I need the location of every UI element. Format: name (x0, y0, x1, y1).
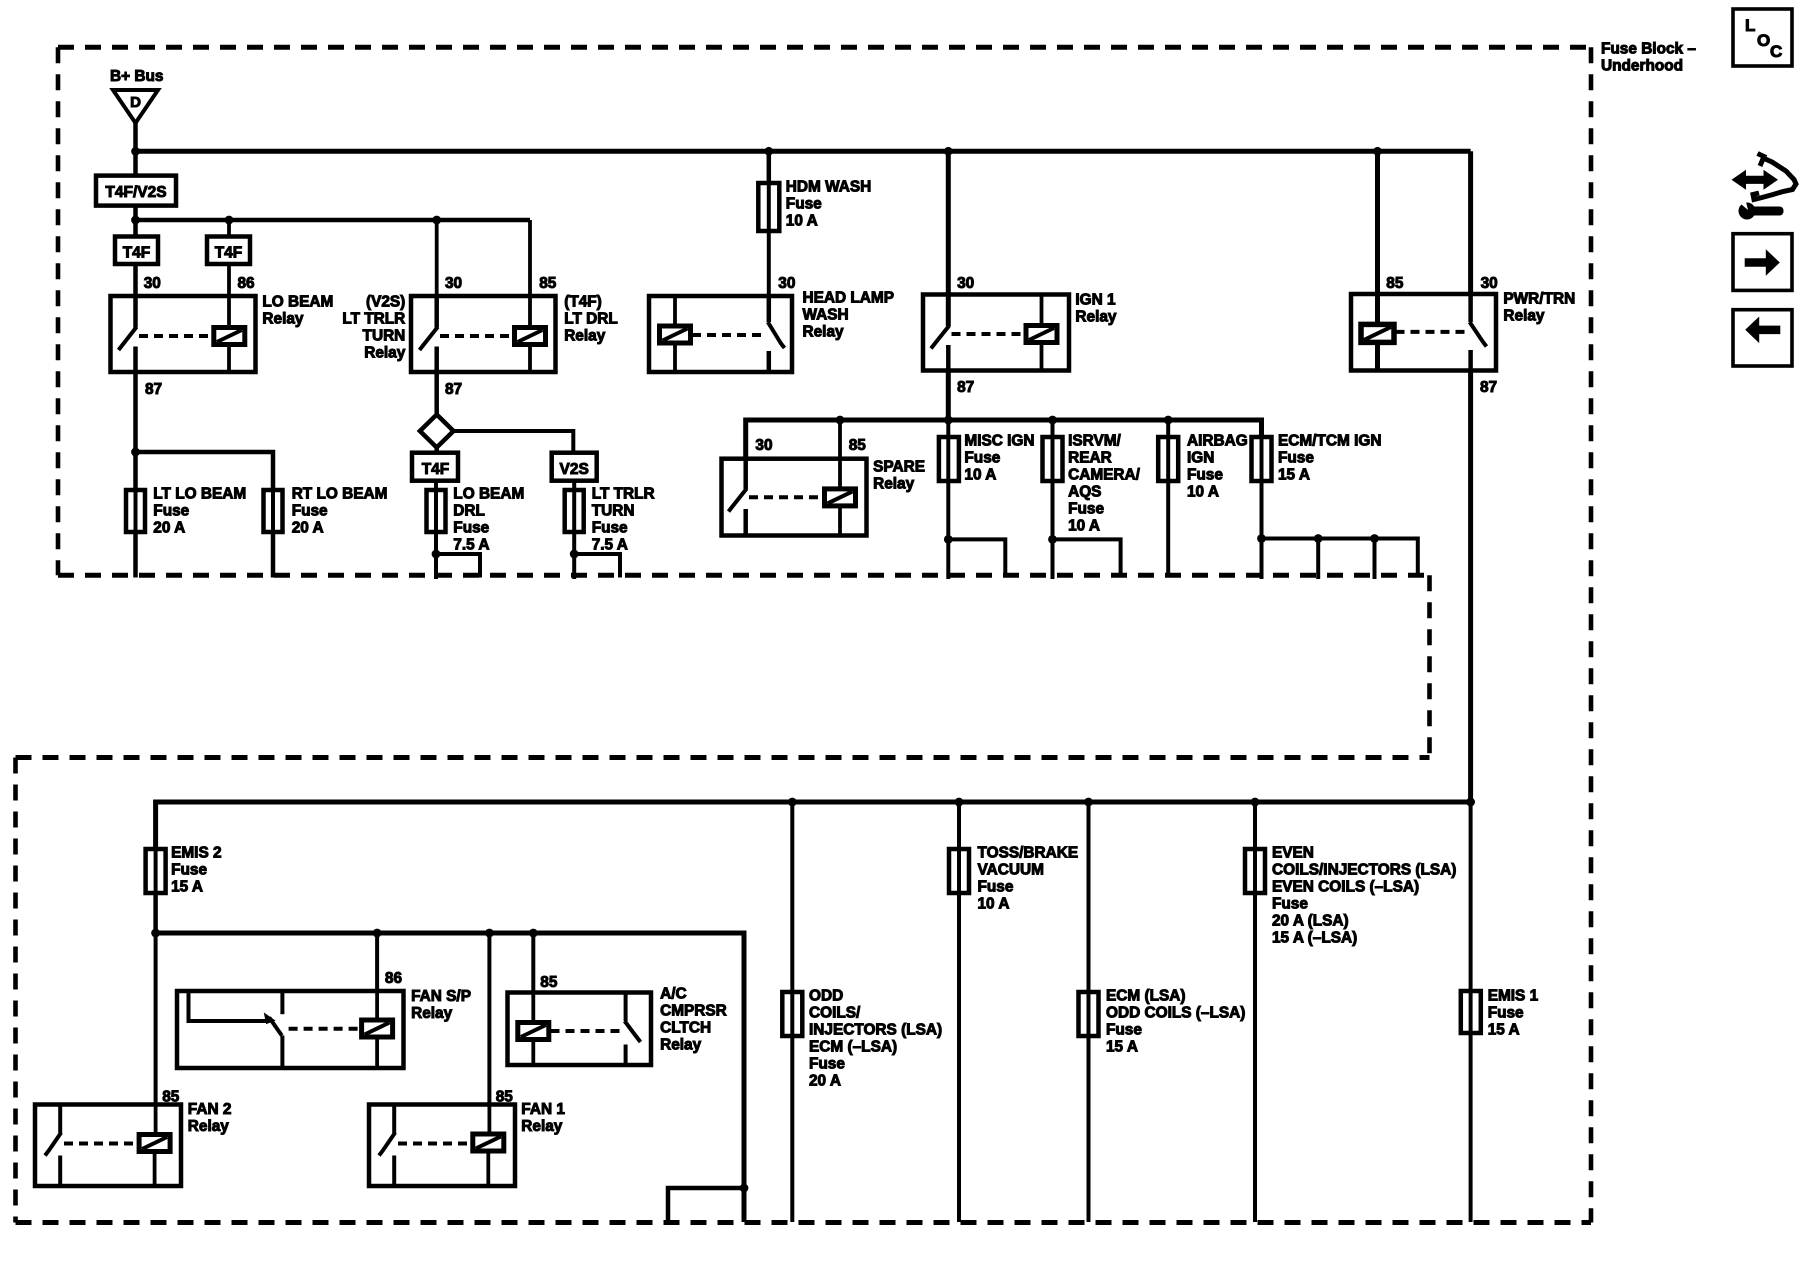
relay FAN S/P - switch upper stub (280, 991, 284, 1014)
wire - bus to TOSS/BRAKE VACUUM fuse (957, 802, 961, 849)
svg-text:Fuse: Fuse (809, 1056, 845, 1073)
svg-text:CLTCH: CLTCH (660, 1020, 711, 1037)
fuse RT LO BEAM 20A - symbol (271, 490, 275, 532)
wire - 87 bus to SPARE relay pin 85 coil (838, 420, 842, 459)
svg-text:10 A: 10 A (1187, 484, 1219, 501)
svg-text:30: 30 (957, 275, 974, 292)
svg-text:20 A: 20 A (153, 520, 185, 537)
relay sub-bus wire (fan/AC relays) (156, 933, 744, 1222)
relay LO BEAM - coil (214, 328, 245, 345)
svg-text:CAMERA/: CAMERA/ (1068, 467, 1141, 484)
relay LO BEAM - coil upper stub (227, 296, 231, 328)
relay FAN 2 - switch arm (45, 1133, 61, 1156)
node - sub-bus at EMIS 2 / FAN 2 feed (151, 929, 160, 938)
relay (V2S) LT TRLR TURN - coil lower stub (528, 345, 532, 373)
wire - ISRVM fuse to exit splice (1051, 481, 1055, 539)
svg-text:30: 30 (445, 275, 462, 292)
relay IGN 1 - coil upper stub (1040, 295, 1044, 326)
svg-text:85: 85 (1386, 275, 1404, 292)
node - bus tap at HDM WASH fuse (764, 147, 773, 156)
node - sub-bus at FAN S/P relay pin 86 (373, 929, 382, 938)
svg-text:ISRVM/: ISRVM/ (1068, 433, 1121, 450)
relay FAN 2 - coil lower stub (153, 1152, 157, 1187)
svg-text:Fuse: Fuse (1278, 450, 1314, 467)
svg-text:85: 85 (849, 437, 867, 454)
svg-text:ODD COILS (–LSA): ODD COILS (–LSA) (1106, 1005, 1245, 1022)
svg-text:30: 30 (778, 275, 795, 292)
svg-text:(V2S): (V2S) (366, 294, 405, 311)
sub-bus wire below T4F/V2S (136, 218, 531, 223)
relay HEAD LAMP WASH - coil (660, 326, 691, 343)
wire - AIRBAG IGN fuse exit to border (1166, 481, 1170, 578)
node - ECM/TCM exit splice 1 (1257, 534, 1266, 543)
svg-text:87: 87 (1480, 379, 1497, 396)
svg-text:Relay: Relay (873, 476, 915, 493)
relay IGN 1 - switch lower stub (pin 87) (946, 345, 951, 371)
svg-text:INJECTORS (LSA): INJECTORS (LSA) (809, 1022, 942, 1039)
fuse LO BEAM DRL 7.5A - symbol (434, 490, 438, 532)
node - junction to RT LO BEAM fuse branch (131, 448, 140, 457)
wire - diamond to T4F box (LO BEAM DRL branch) (434, 448, 439, 453)
relay LO BEAM - coil lower stub (227, 345, 231, 373)
svg-text:Fuse: Fuse (1272, 896, 1308, 913)
node - sub-bus at A/C relay pin 85 (529, 929, 538, 938)
wire - bus to HDM WASH fuse (767, 151, 772, 183)
main B+ bus wire across top (136, 149, 1471, 154)
relay SPARE - box (722, 459, 867, 536)
relay HEAD LAMP WASH - switch pin 30 stub (767, 296, 772, 322)
node - 87 bus at AIRBAG IGN fuse column (1164, 416, 1173, 425)
icon LOC reference box (1733, 9, 1792, 66)
svg-text:30: 30 (755, 437, 772, 454)
fuse ISRVM/REAR CAMERA/AQS 10A - symbol (1051, 437, 1055, 481)
relay FAN 1 - coil lower stub (486, 1151, 490, 1186)
svg-text:Fuse: Fuse (964, 450, 1000, 467)
wire - ECM/TCM exit stub 3 to border (1373, 539, 1377, 580)
svg-text:ECM/TCM IGN: ECM/TCM IGN (1278, 433, 1381, 450)
relay (V2S) LT TRLR TURN - coil upper stub (528, 296, 532, 328)
relay FAN 2 - box (35, 1105, 181, 1187)
relay FAN S/P - internal L conductor (189, 991, 268, 1021)
relay FAN S/P - coil (362, 1020, 393, 1037)
svg-text:Relay: Relay (411, 1005, 453, 1022)
svg-text:MISC IGN: MISC IGN (964, 433, 1034, 450)
connector label box T4F (pin 30 LO BEAM relay) (115, 237, 158, 265)
relay FAN S/P - coil upper stub (375, 991, 379, 1020)
svg-text:T4F: T4F (215, 245, 243, 262)
wire - MISC IGN fuse to exit splice (946, 481, 950, 539)
svg-text:10 A: 10 A (786, 213, 818, 230)
svg-text:15 A: 15 A (171, 879, 203, 896)
relay LO BEAM - box (111, 296, 256, 372)
svg-text:FAN S/P: FAN S/P (411, 988, 471, 1005)
relay (V2S) LT TRLR TURN - switch arm (420, 327, 438, 350)
relay HEAD LAMP WASH - coil upper stub (673, 296, 677, 326)
svg-text:COILS/INJECTORS (LSA): COILS/INJECTORS (LSA) (1272, 862, 1456, 879)
svg-text:EMIS 2: EMIS 2 (171, 845, 221, 862)
wire - LO BEAM relay pin 87 down (133, 372, 138, 490)
connector label box T4F (LO BEAM DRL fuse) (412, 453, 458, 481)
wire - LO BEAM DRL exit stub right to border (436, 554, 480, 578)
ignition 87 bus wire (746, 420, 1262, 459)
svg-text:Relay: Relay (364, 345, 406, 362)
svg-text:V2S: V2S (560, 461, 589, 478)
svg-text:Relay: Relay (803, 324, 845, 341)
relay A/C CMPRSR CLTCH - switch upper stub (624, 993, 628, 1022)
power triangle D (B+ Bus) (113, 90, 158, 123)
wire - ISRVM exit stub right to border (1053, 539, 1121, 577)
relay A/C CMPRSR CLTCH - switch arm (625, 1021, 641, 1042)
svg-text:15 A: 15 A (1278, 467, 1310, 484)
relay PWR/TRN - dashed actuator link (1396, 330, 1467, 334)
wire - bus to EVEN COILS fuse (1253, 802, 1257, 849)
relay HEAD LAMP WASH - switch arm (768, 322, 785, 348)
svg-text:O: O (1757, 31, 1770, 50)
svg-text:HDM WASH: HDM WASH (786, 179, 872, 196)
node - ISRVM exit splice (1048, 535, 1057, 544)
relay FAN 1 - switch upper stub (392, 1105, 396, 1134)
relay (V2S) LT TRLR TURN - dashed actuator link (440, 334, 515, 338)
svg-text:85: 85 (539, 275, 557, 292)
relay SPARE - switch arm (729, 489, 747, 512)
svg-text:EVEN COILS (–LSA): EVEN COILS (–LSA) (1272, 879, 1419, 896)
icon forward arrow box (1733, 234, 1792, 291)
wire - sub-bus to V2S relay pin 30 (435, 220, 439, 296)
relay IGN 1 - switch pin 30 stub (946, 295, 951, 327)
node - LT TRLR TURN exit splice (570, 550, 579, 559)
relay FAN S/P - dashed actuator link (289, 1027, 362, 1031)
svg-text:10 A: 10 A (1068, 518, 1100, 535)
svg-text:Fuse: Fuse (1187, 467, 1223, 484)
relay PWR/TRN - switch arm (1470, 322, 1487, 347)
wire - sub-bus down to FAN 2 relay coil (pin 85) (154, 933, 158, 1105)
relay FAN 1 - box (369, 1105, 515, 1187)
svg-text:EMIS 1: EMIS 1 (1488, 988, 1539, 1005)
node - bus tap at PWR/TRN relay pin 85 (1373, 147, 1382, 156)
node - ECM/TCM exit splice 3 (1370, 534, 1379, 543)
node - sub-bus at FAN 1 relay pin 85 (485, 929, 494, 938)
fuse TOSS/BRAKE VACUUM 10A - symbol (957, 849, 961, 893)
svg-text:Fuse: Fuse (1488, 1005, 1524, 1022)
relay FAN 2 - coil (139, 1135, 170, 1152)
svg-text:T4F: T4F (123, 245, 151, 262)
svg-text:VACUUM: VACUUM (978, 862, 1044, 879)
wire - V2S box to LT TRLR TURN fuse (572, 481, 576, 490)
svg-text:COILS/: COILS/ (809, 1005, 861, 1022)
relay FAN S/P - switch lower stub (280, 1036, 284, 1069)
relay HEAD LAMP WASH - dashed actuator link (692, 333, 765, 337)
wire - ECM/TCM exit stub 1 to border (1260, 539, 1264, 580)
wire - sub-bus into right T4F box (227, 220, 231, 237)
wire - bus to PWR/TRN relay pin 85 (coil) (1375, 151, 1380, 294)
svg-text:Fuse Block –: Fuse Block – (1601, 41, 1696, 58)
svg-text:ECM (LSA): ECM (LSA) (1106, 988, 1186, 1005)
relay PWR/TRN - coil (1361, 324, 1394, 342)
svg-text:CMPRSR: CMPRSR (660, 1003, 727, 1020)
relay PWR/TRN - coil lower stub (1375, 342, 1380, 370)
fuse block border - bottom box, dashed outline (16, 755, 1430, 760)
relay LO BEAM - switch lower stub (pin 87) (133, 347, 138, 373)
svg-text:10 A: 10 A (964, 467, 996, 484)
svg-text:15 A (–LSA): 15 A (–LSA) (1272, 930, 1357, 947)
fuse AIRBAG IGN 10A - symbol (1166, 437, 1170, 481)
svg-text:30: 30 (1481, 275, 1498, 292)
fuse EVEN COILS/INJECTORS - symbol (1253, 849, 1257, 893)
node - MISC IGN exit splice (944, 535, 953, 544)
relay FAN S/P - coil lower stub (375, 1037, 379, 1068)
svg-text:T4F/V2S: T4F/V2S (105, 184, 166, 201)
wire - PWR/TRN pin 87 long feed down to bottom bus (1468, 371, 1473, 803)
svg-text:Relay: Relay (188, 1118, 230, 1135)
relay (V2S) LT TRLR TURN - coil (515, 328, 546, 345)
svg-text:Relay: Relay (660, 1037, 702, 1054)
relay SPARE - switch lower stub (743, 509, 748, 536)
fuse block border - top box (Fuse Block - Underhood), dashed outline (58, 45, 1591, 50)
svg-text:AIRBAG: AIRBAG (1187, 433, 1248, 450)
relay FAN 1 - switch arm (379, 1133, 395, 1156)
relay SPARE - coil upper stub (838, 459, 842, 489)
node - 87 bus at MISC IGN column (944, 416, 953, 425)
svg-text:LO BEAM: LO BEAM (453, 486, 524, 503)
wire - sub-bus down to FAN 1 relay coil (pin 85) (487, 933, 491, 1105)
wire - diamond right branch to V2S box (454, 431, 574, 453)
fuse LT LO BEAM 20A - symbol (134, 490, 138, 532)
svg-text:DRL: DRL (453, 503, 485, 520)
svg-text:TURN: TURN (592, 503, 635, 520)
node - bottom bus at ECM (LSA) fuse (1084, 798, 1093, 807)
svg-text:L: L (1745, 16, 1755, 35)
relay PWR/TRN - coil upper stub (1375, 294, 1380, 324)
svg-text:ECM (–LSA): ECM (–LSA) (809, 1039, 897, 1056)
svg-text:Fuse: Fuse (978, 879, 1014, 896)
wire - ECM/TCM exit manifold (1262, 539, 1418, 578)
node - bottom bus at EVEN COILS fuse (1251, 798, 1260, 807)
wire - LO BEAM DRL exit stub left to border (434, 554, 438, 579)
relay IGN 1 - box (923, 295, 1069, 371)
fuse MISC IGN 10A - symbol (946, 437, 950, 481)
fuse block border - right edge (1589, 47, 1594, 1222)
wire - sub-bus into left T4F box (133, 220, 138, 237)
svg-text:7.5 A: 7.5 A (453, 537, 489, 554)
connector label box T4F/V2S (96, 176, 176, 206)
wire - EMIS 2 fuse to relay sub-bus (153, 893, 158, 933)
bottom box main bus wire (156, 802, 1471, 849)
wire - MISC IGN exit stub down to border (946, 539, 950, 579)
svg-text:Fuse: Fuse (171, 862, 207, 879)
relay FAN 2 - switch lower stub (58, 1156, 62, 1187)
wire - bus to ECM (LSA) fuse (1087, 802, 1091, 992)
node - 87 bus at ISRVM fuse column (1048, 416, 1057, 425)
svg-text:B+ Bus: B+ Bus (110, 68, 163, 85)
wire - ODD COILS fuse exit to border (790, 1036, 794, 1222)
node - bus tap at T4F/V2S feed (131, 147, 140, 156)
fuse EMIS 1 15A - symbol (1469, 991, 1473, 1033)
svg-text:20 A: 20 A (292, 520, 324, 537)
wire - LO BEAM DRL fuse to exit splice (434, 532, 438, 554)
svg-text:LT DRL: LT DRL (564, 311, 618, 328)
svg-text:Relay: Relay (1503, 308, 1545, 325)
svg-text:Relay: Relay (521, 1118, 563, 1135)
svg-text:10 A: 10 A (978, 896, 1010, 913)
relay FAN S/P - box (177, 991, 404, 1068)
svg-text:A/C: A/C (660, 986, 687, 1003)
relay FAN 1 - coil (473, 1134, 504, 1151)
svg-text:86: 86 (238, 275, 255, 292)
svg-text:30: 30 (144, 275, 161, 292)
fuse block border - notch between boxes (1427, 575, 1432, 757)
relay SPARE - coil (825, 489, 856, 506)
wire - exit stub left of sub-bus drop (668, 1188, 744, 1222)
svg-text:Fuse: Fuse (592, 520, 628, 537)
svg-text:20 A: 20 A (809, 1073, 841, 1090)
wire - bus down to T4F/V2S box (133, 151, 138, 175)
wire - RT LO BEAM fuse exit to border (271, 532, 276, 578)
svg-text:PWR/TRN: PWR/TRN (1503, 291, 1575, 308)
node - bottom bus at ODD COILS fuse (788, 798, 797, 807)
junction diamond splice (420, 415, 454, 448)
wire - IGN 1 pin 87 down to ignition bus (946, 371, 951, 421)
svg-text:TOSS/BRAKE: TOSS/BRAKE (978, 845, 1079, 862)
node - bottom bus at TOSS/BRAKE VACUUM fuse (955, 798, 964, 807)
svg-text:SPARE: SPARE (873, 459, 925, 476)
relay PWR/TRN - switch lower stub (pin 87) (1468, 350, 1473, 371)
relay PWR/TRN - switch pin 30 stub (1468, 294, 1473, 322)
wire - sub-bus corner to V2S relay pin 85 (528, 220, 532, 296)
relay IGN 1 - coil (1026, 326, 1057, 343)
node - ECM/TCM exit splice 2 (1314, 534, 1323, 543)
wire - AIRBAG IGN fuse feed (1166, 420, 1170, 437)
node - LO BEAM DRL exit splice (432, 550, 441, 559)
relay FAN 2 - switch upper stub (58, 1105, 62, 1134)
fuse EMIS 2 15A - symbol (154, 849, 158, 893)
connector label box T4F (pin 86 LO BEAM relay) (207, 237, 250, 265)
connector label box V2S (LT TRLR TURN fuse) (552, 453, 597, 481)
wire - ISRVM fuse feed (1051, 420, 1055, 437)
icon harness view (double arrow, outline, wrench) (1753, 158, 1796, 200)
svg-text:FAN 2: FAN 2 (188, 1101, 232, 1118)
svg-text:IGN: IGN (1187, 450, 1214, 467)
wire - bus to ODD COILS fuse (790, 802, 794, 992)
wire - sub-bus down to FAN S/P relay pin 86 (375, 933, 379, 991)
relay LO BEAM - dashed actuator link (139, 334, 214, 338)
svg-text:IGN 1: IGN 1 (1075, 292, 1116, 309)
relay LO BEAM - switch arm (119, 327, 137, 350)
svg-text:ODD: ODD (809, 988, 843, 1005)
fuse ECM/TCM IGN 15A - symbol (1260, 436, 1264, 481)
wire - ECM/TCM exit stub 2 to border (1316, 539, 1320, 580)
relay IGN 1 - switch arm (931, 326, 949, 349)
svg-text:Fuse: Fuse (292, 503, 328, 520)
node - sub-bus tap at T4F (86 branch) (225, 216, 234, 225)
fuse LT TRLR TURN 7.5A - symbol (572, 490, 576, 532)
relay HEAD LAMP WASH - box (649, 296, 792, 372)
relay PWR/TRN - box (1351, 294, 1496, 371)
svg-text:Fuse: Fuse (1106, 1022, 1142, 1039)
icon back arrow box (1733, 310, 1792, 366)
relay IGN 1 - coil lower stub (1040, 343, 1044, 371)
wire - LT TRLR TURN fuse to exit splice (572, 532, 576, 554)
svg-text:D: D (130, 94, 141, 111)
relay A/C CMPRSR CLTCH - coil upper stub (531, 993, 535, 1023)
svg-text:20 A (LSA): 20 A (LSA) (1272, 913, 1349, 930)
svg-text:85: 85 (540, 974, 558, 991)
wire - B+ triangle to main bus (133, 121, 138, 151)
svg-text:(T4F): (T4F) (564, 294, 602, 311)
node - exit splice on sub-bus drop (740, 1184, 749, 1193)
relay SPARE - dashed actuator link (749, 495, 825, 499)
svg-text:86: 86 (385, 970, 402, 987)
relay FAN 1 - coil upper stub (487, 1105, 491, 1135)
fuse ECM (LSA) ODD COILS (-LSA) 15A - symbol (1087, 992, 1091, 1036)
wire - branch to RT LO BEAM fuse (136, 452, 274, 490)
wire - LT TRLR TURN relay pin 87 to diamond junction (434, 372, 439, 416)
svg-text:TURN: TURN (363, 328, 406, 345)
svg-text:REAR: REAR (1068, 450, 1112, 467)
wire - T4F box to LO BEAM relay pin 30 (133, 264, 138, 296)
svg-text:Relay: Relay (1075, 309, 1117, 326)
relay FAN 2 - coil upper stub (154, 1105, 158, 1135)
relay A/C CMPRSR CLTCH - coil (518, 1023, 549, 1040)
relay FAN 2 - dashed actuator link (64, 1142, 139, 1146)
relay FAN S/P - switch arm with arrowhead (269, 1018, 282, 1036)
node - sub-bus at T4F (left) (131, 216, 140, 225)
wire - ISRVM exit stub down to border (1051, 539, 1055, 579)
wire - EVEN COILS fuse exit to border (1253, 893, 1257, 1222)
svg-text:15 A: 15 A (1488, 1022, 1520, 1039)
fuse HDM WASH 10A - symbol (767, 183, 771, 231)
svg-text:LO BEAM: LO BEAM (262, 294, 333, 311)
wire - T4F/V2S box to sub-bus (133, 206, 138, 220)
wire - LT TRLR TURN exit stub right to border (574, 554, 620, 578)
node - 87 bus at SPARE relay pin 85 (836, 416, 845, 425)
node - bus tap at IGN 1 relay (944, 147, 953, 156)
svg-text:Fuse: Fuse (786, 196, 822, 213)
relay LO BEAM - switch pin 30 stub (133, 296, 138, 328)
svg-text:T4F: T4F (422, 461, 450, 478)
wire - LT LO BEAM fuse exit to border (133, 532, 138, 578)
svg-text:Relay: Relay (564, 328, 606, 345)
svg-text:WASH: WASH (803, 307, 849, 324)
svg-text:HEAD LAMP: HEAD LAMP (803, 290, 895, 307)
relay A/C CMPRSR CLTCH - dashed actuator link (551, 1029, 622, 1033)
svg-text:87: 87 (145, 381, 162, 398)
relay A/C CMPRSR CLTCH - coil lower stub (531, 1040, 535, 1066)
wire - MISC IGN exit stub right to border (948, 539, 1005, 577)
relay HEAD LAMP WASH - switch lower stub (767, 351, 772, 372)
svg-text:Fuse: Fuse (453, 520, 489, 537)
relay (V2S) LT TRLR TURN - box (411, 296, 556, 372)
relay IGN 1 - dashed actuator link (952, 332, 1027, 336)
wire - EMIS 1 fuse exit to border (1469, 1033, 1473, 1222)
wire - ECM (LSA) fuse exit to border (1087, 1036, 1091, 1222)
svg-text:EVEN: EVEN (1272, 845, 1314, 862)
svg-text:Fuse: Fuse (1068, 501, 1104, 518)
wire - sub-bus down to A/C relay coil (pin 85) (531, 933, 535, 993)
relay SPARE - switch pin 30 stub (743, 459, 748, 489)
wire - MISC IGN fuse feed (946, 420, 950, 437)
svg-text:15 A: 15 A (1106, 1039, 1138, 1056)
svg-text:87: 87 (445, 381, 462, 398)
svg-text:LT TRLR: LT TRLR (592, 486, 655, 503)
svg-text:LT LO BEAM: LT LO BEAM (153, 486, 246, 503)
relay FAN 1 - dashed actuator link (398, 1142, 473, 1146)
svg-text:87: 87 (957, 379, 974, 396)
node - bottom bus at EMIS 1 column / PWR-TRN feed (1466, 798, 1475, 807)
svg-text:RT LO BEAM: RT LO BEAM (292, 486, 388, 503)
node - sub-bus tap at V2S relay pin 30 branch (432, 216, 441, 225)
svg-text:FAN 1: FAN 1 (521, 1101, 565, 1118)
wire - LT TRLR TURN exit stub down to border (572, 554, 576, 579)
